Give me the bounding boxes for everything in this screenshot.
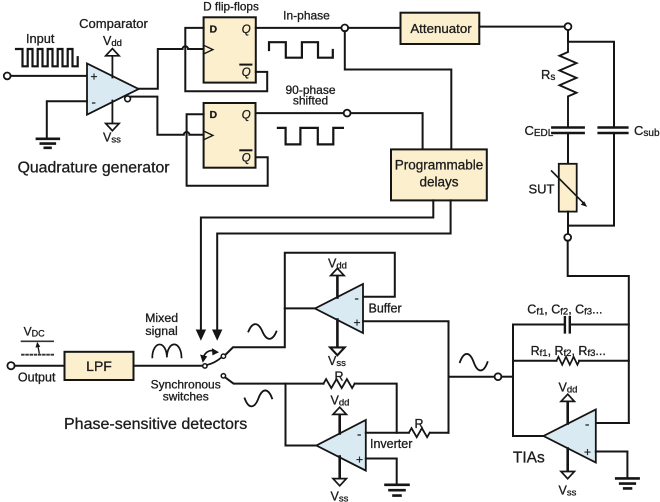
programmable delays box xyxy=(391,149,487,200)
third sine glyph xyxy=(460,354,488,371)
arrowhead delay 1 xyxy=(197,330,206,340)
Vss arrow xyxy=(106,124,119,131)
wire buffer + input from TIA line xyxy=(363,321,449,432)
wire R2 to node line xyxy=(430,432,449,434)
svg-text:+: + xyxy=(584,445,591,459)
inverter Vss stem xyxy=(338,457,341,479)
svg-text:-: - xyxy=(355,291,359,306)
FF2 clock triangle xyxy=(204,131,213,140)
TIA Vss arrow xyxy=(561,472,574,479)
ground inverter xyxy=(386,485,409,496)
wire LPF to switch pole xyxy=(134,365,203,367)
svg-text:Q: Q xyxy=(242,24,251,36)
svg-text:-: - xyxy=(585,417,589,432)
wire node to feedback box xyxy=(501,376,513,378)
svg-text:Q: Q xyxy=(242,153,251,165)
buffer Vdd arrow xyxy=(331,268,344,275)
svg-text:-: - xyxy=(92,95,96,110)
switch upper contact xyxy=(221,354,225,358)
svg-text:Quadrature generator: Quadrature generator xyxy=(18,159,170,176)
TIA Vdd arrow xyxy=(561,394,574,401)
TIA op-amp xyxy=(544,410,596,463)
SUT arrow xyxy=(552,171,584,203)
svg-text:SUT: SUT xyxy=(529,182,555,197)
svg-text:Mixed: Mixed xyxy=(145,311,178,325)
switch lower contact xyxy=(221,374,225,378)
svg-text:Inverter: Inverter xyxy=(370,437,412,451)
svg-text:D flip-flops: D flip-flops xyxy=(203,0,259,14)
in-phase waveform glyph xyxy=(269,42,333,58)
SUT box xyxy=(559,164,577,212)
TIA Vdd stem xyxy=(566,401,569,424)
svg-text:signal: signal xyxy=(145,324,177,338)
ground TIA xyxy=(616,478,638,488)
wire FF1 Q to in-phase node xyxy=(256,27,342,29)
svg-text:TIAs: TIAs xyxy=(513,450,545,467)
wire inverter - input with resistor R2 xyxy=(366,432,409,434)
mixed signal humps glyph xyxy=(152,344,181,357)
svg-text:+: + xyxy=(91,69,98,83)
node sensor bottom xyxy=(564,234,571,241)
svg-text:Programmable: Programmable xyxy=(395,158,484,173)
wire TIA - input xyxy=(596,422,629,424)
wire attenuator to sensor node xyxy=(479,26,564,28)
svg-text:+: + xyxy=(356,453,363,467)
FF1 clock triangle xyxy=(204,45,213,54)
Vdd arrow xyxy=(106,49,119,56)
buffer Vss stem xyxy=(331,320,344,355)
wire 90-phase node to delays xyxy=(351,113,423,149)
VDC level line xyxy=(22,340,54,342)
wire delay output 2 xyxy=(217,200,450,330)
TIA Vss stem xyxy=(566,449,569,472)
buffer Vss arrow xyxy=(331,348,344,355)
wire node to attenuator xyxy=(348,27,400,29)
wire sensor node to TIA input xyxy=(568,241,629,423)
svg-text:switches: switches xyxy=(163,390,209,404)
resistor R2 xyxy=(409,428,430,437)
svg-text:Q: Q xyxy=(242,110,251,122)
capacitor Csub xyxy=(599,128,628,134)
wire in-phase node down to delays xyxy=(345,31,452,149)
svg-text:-: - xyxy=(357,427,361,442)
node TIA input xyxy=(495,373,502,380)
inverter Vdd stem xyxy=(338,414,341,434)
FF1 feedback Qbar to D xyxy=(185,28,267,91)
output terminal xyxy=(7,362,14,369)
node 90-phase xyxy=(344,110,351,117)
inverter Vss arrow xyxy=(333,479,346,486)
comparator U1 xyxy=(87,64,139,115)
attenuator box xyxy=(401,13,480,44)
upper sine glyph xyxy=(248,324,276,339)
wire - input to ground xyxy=(47,101,87,137)
D flip-flop FF1 xyxy=(204,17,256,82)
FF2 feedback Qbar to D xyxy=(187,114,268,186)
ground xyxy=(37,139,59,148)
node sensor top xyxy=(565,23,572,30)
svg-text:shifted: shifted xyxy=(293,94,328,108)
resistor Rf branch xyxy=(513,360,629,362)
input square wave xyxy=(16,49,78,66)
sensor column: stem below node xyxy=(567,30,569,42)
node in-phase xyxy=(341,25,348,32)
svg-text:Comparator: Comparator xyxy=(79,16,148,31)
switch lever xyxy=(207,357,222,365)
branch to Csub xyxy=(568,42,614,126)
wire R feedback to inverter minus xyxy=(355,384,397,433)
switch lower lever wire xyxy=(225,377,323,383)
LPF box xyxy=(65,352,134,380)
svg-text:Phase-sensitive detectors: Phase-sensitive detectors xyxy=(64,416,247,433)
comparator Vss stem xyxy=(111,101,113,124)
inverter output wire xyxy=(286,384,317,446)
wire buffer output to switch xyxy=(226,308,285,354)
svg-text:+: + xyxy=(354,316,361,330)
D flip-flop FF2 xyxy=(204,103,256,168)
VDC arrow xyxy=(38,345,39,353)
svg-text:D: D xyxy=(210,109,218,121)
inverter op-amp xyxy=(316,420,365,471)
90-phase waveform glyph xyxy=(278,128,343,144)
svg-text:Input: Input xyxy=(26,31,55,46)
wire buffer top loop xyxy=(285,253,395,309)
wire input to comparator + xyxy=(11,75,87,77)
capacitor CEDL xyxy=(552,128,583,134)
svg-text:Q: Q xyxy=(242,67,251,79)
svg-text:Attenuator: Attenuator xyxy=(410,21,472,36)
wire CEDL to SUT xyxy=(567,133,569,164)
VDC dotted line xyxy=(22,354,53,356)
input terminal xyxy=(4,73,11,80)
capacitor Cf plates xyxy=(565,317,570,332)
toggle arrow xyxy=(203,351,214,358)
svg-text:In-phase: In-phase xyxy=(283,8,330,22)
wire FF2 Q to 90-phase node xyxy=(256,112,344,114)
Csub return wire xyxy=(568,133,614,226)
TIA feedback left vertical and output xyxy=(513,325,544,437)
svg-text:R: R xyxy=(415,417,424,431)
capacitor Cf branch xyxy=(513,324,629,326)
svg-text:Buffer: Buffer xyxy=(369,302,402,316)
wire output to LPF xyxy=(15,365,65,367)
wire inverter + to ground xyxy=(366,459,397,484)
svg-text:D: D xyxy=(210,23,218,35)
lower sine glyph xyxy=(245,390,272,406)
wire delay output 1 xyxy=(201,200,433,330)
wire comparator inverted out to FF2 clock xyxy=(131,97,204,135)
inverter Vdd arrow xyxy=(333,407,346,414)
arrowhead delay 2 xyxy=(213,330,222,340)
switch pole xyxy=(203,364,207,368)
wire comparator out to FF1 clock xyxy=(139,46,204,89)
svg-text:delays: delays xyxy=(419,175,458,190)
comparator Vdd stem xyxy=(111,56,113,77)
buffer op-amp xyxy=(315,284,363,333)
resistor Rs xyxy=(560,42,577,126)
svg-text:R: R xyxy=(335,370,344,384)
wire SUT down xyxy=(567,212,569,234)
comparator inverted output bubble xyxy=(125,96,131,102)
wire TIA + to ground xyxy=(596,452,628,478)
svg-text:Output: Output xyxy=(18,371,56,385)
buffer Vdd stem xyxy=(336,275,339,298)
svg-text:LPF: LPF xyxy=(86,358,112,374)
wire node to TIA xyxy=(449,376,495,378)
resistor Rf xyxy=(557,357,580,365)
resistor R feedback xyxy=(324,379,355,388)
